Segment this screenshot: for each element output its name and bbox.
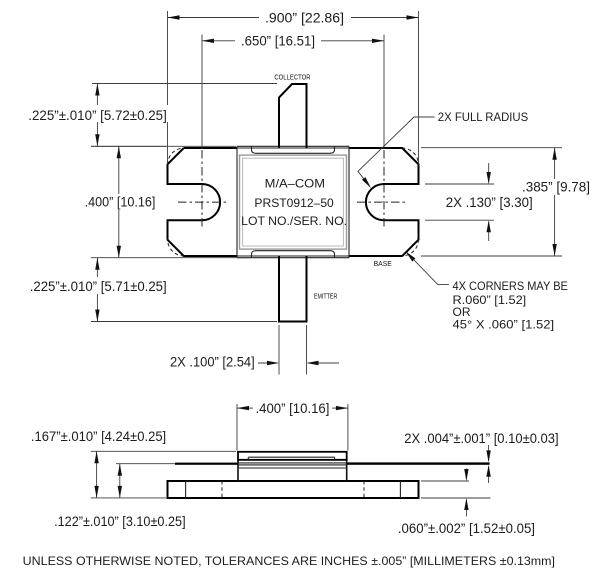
emitter lead pad on ceramic — [252, 251, 335, 258]
cap marking text — [241, 176, 347, 228]
collector lead — [279, 84, 307, 148]
svg-text:.167”±.010” [4.24±0.25]: .167”±.010” [4.24±0.25] — [31, 429, 166, 444]
side view ceramic body and cap — [238, 452, 347, 481]
svg-text:.122”±.010” [3.10±0.25]: .122”±.010” [3.10±0.25] — [54, 514, 186, 529]
svg-text:.060”±.002” [1.52±0.05]: .060”±.002” [1.52±0.05] — [398, 521, 535, 536]
dimension .400 ceramic body width — [80, 146, 251, 257]
left slot center lines — [178, 150, 229, 229]
dimension .385 body depth — [421, 148, 593, 256]
2X FULL RADIUS callout — [358, 110, 528, 188]
right slot center lines — [357, 150, 408, 229]
side view flange cross-section — [168, 481, 419, 498]
EMITTER label — [314, 291, 338, 300]
svg-text:.225”±.010” [5.72±0.25]: .225”±.010” [5.72±0.25] — [28, 108, 167, 123]
svg-text:.900” [22.86]: .900” [22.86] — [265, 10, 344, 25]
dimension 2X .004 lead thickness — [404, 431, 558, 483]
svg-text:LOT NO./SER. NO.: LOT NO./SER. NO. — [241, 214, 347, 228]
dimension .167 overall height — [31, 429, 236, 498]
flange edge behind ceramic body — [237, 148, 349, 256]
emitter lead — [279, 256, 307, 322]
ceramic cap (gray double border) — [240, 155, 347, 249]
dimension .400 cap width (side view) — [237, 401, 348, 451]
svg-text:2X .100” [2.54]: 2X .100” [2.54] — [170, 355, 255, 370]
dimension .225 collector lead length — [26, 84, 277, 147]
COLLECTOR label — [274, 73, 311, 82]
dimension .225 emitter lead length — [26, 258, 277, 322]
svg-text:.400” [10.16]: .400” [10.16] — [85, 194, 156, 209]
svg-text:COLLECTOR: COLLECTOR — [274, 73, 311, 82]
tolerance note — [23, 554, 555, 568]
svg-text:.225”±.010” [5.71±0.25]: .225”±.010” [5.71±0.25] — [30, 279, 167, 294]
svg-text:2X .130” [3.30]: 2X .130” [3.30] — [446, 195, 533, 210]
svg-text:BASE: BASE — [374, 259, 392, 268]
svg-text:45° X .060” [1.52]: 45° X .060” [1.52] — [453, 317, 555, 331]
side view leads — [175, 462, 490, 464]
flange outline (top view) with mounting slots and chamfered corners — [168, 148, 419, 256]
svg-text:4X CORNERS MAY BE: 4X CORNERS MAY BE — [453, 279, 568, 293]
ceramic body outline (top view) — [237, 146, 349, 257]
4X corners note — [406, 251, 568, 331]
svg-text:EMITTER: EMITTER — [314, 291, 338, 300]
svg-text:.650” [16.51]: .650” [16.51] — [241, 34, 315, 49]
svg-text:.400” [10.16]: .400” [10.16] — [256, 401, 330, 416]
svg-text:2X FULL RADIUS: 2X FULL RADIUS — [438, 110, 528, 124]
svg-text:.385” [9.78]: .385” [9.78] — [522, 179, 590, 194]
dimension .122 lead height — [54, 464, 186, 529]
svg-text:M/A–COM: M/A–COM — [265, 176, 325, 190]
dimension 2X .100 lead width — [170, 325, 339, 375]
svg-text:PRST0912–50: PRST0912–50 — [254, 196, 334, 210]
svg-text:2X .004”±.001” [0.10±0.03]: 2X .004”±.001” [0.10±0.03] — [404, 431, 558, 446]
dimension 2X .130 slot width — [425, 163, 533, 241]
svg-text:UNLESS OTHERWISE NOTED, TOLERA: UNLESS OTHERWISE NOTED, TOLERANCES ARE I… — [23, 554, 555, 568]
dimension .900 [22.86] overall width — [168, 9, 419, 164]
dimension .060 flange thickness — [398, 469, 535, 536]
dashed optional corner radius arcs (4X R.060) — [168, 148, 419, 256]
collector lead pad on ceramic — [252, 147, 335, 154]
dimension .650 [16.51] slot centers — [202, 33, 384, 150]
BASE label — [374, 259, 392, 268]
